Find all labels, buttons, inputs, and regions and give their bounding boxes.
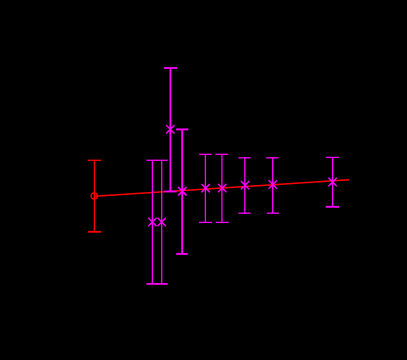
magenta error bar E (thick) [176, 129, 188, 254]
magenta x marker J [328, 178, 336, 186]
magenta x marker B [148, 218, 156, 226]
red error bar (circle point) [88, 160, 102, 232]
red fit line [94, 180, 349, 197]
magenta x marker D [166, 125, 174, 133]
magenta x marker E [178, 187, 186, 195]
magenta error bar J [326, 157, 340, 206]
magenta error bar I [266, 158, 279, 213]
magenta x marker F [201, 184, 209, 192]
magenta error bar H [238, 158, 250, 213]
magenta error bar G [215, 154, 228, 222]
red circle marker [91, 193, 97, 199]
magenta error bar F [199, 154, 212, 222]
magenta error bar D (thick) [164, 68, 177, 192]
magenta error bar C [156, 160, 168, 284]
magenta error bar B [146, 160, 158, 284]
magenta x marker C [158, 218, 166, 226]
magenta x marker G [218, 184, 226, 192]
magenta x marker H [241, 181, 249, 189]
magenta x marker I [269, 180, 277, 188]
